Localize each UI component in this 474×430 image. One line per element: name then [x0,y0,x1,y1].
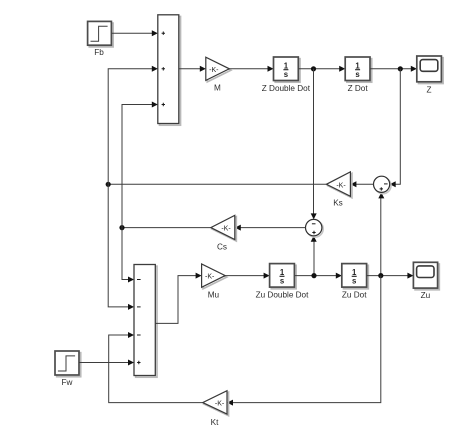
node after Z Double Dot [311,66,316,71]
integrator Z Dot [345,57,371,93]
gain Ks [326,172,352,208]
svg-text:s: s [284,70,289,79]
wire node E to Sum1 input 2 [108,66,158,185]
svg-text:-K-: -K- [209,67,219,74]
wire node E to Sum2 input 2 [108,184,134,310]
svg-text:Ks: Ks [333,199,343,208]
sum block Sum2 [134,265,157,378]
node after Z Dot [398,66,403,71]
svg-text:M: M [214,84,221,93]
wire node F to Sum1 input 3 [122,102,158,228]
wire Fb to Sum1 input 1 [111,30,157,36]
wire gain M to integrator Z Double Dot [229,66,273,72]
svg-text:Zu Double Dot: Zu Double Dot [256,291,310,300]
wire Sum3 to gain Ks [350,181,373,187]
step source Fb [88,21,114,57]
node E Ks feedback tap [106,182,111,187]
svg-text:-K-: -K- [221,226,231,233]
svg-text:Zu: Zu [421,291,431,300]
scope Z [417,56,443,94]
sum junction Sum4 [306,219,324,237]
step source Fw [55,351,81,387]
svg-text:s: s [352,277,357,286]
wire Kt to Sum2 input 3 [109,332,203,403]
node after Zu Dot [378,273,383,278]
wire Zu Dot to scope Zu [367,273,414,279]
sum block Sum1 [158,15,181,125]
svg-text:Zu Dot: Zu Dot [342,291,367,300]
wire Sum4 to gain Cs [235,225,306,231]
wire node after Z Double Dot down to Sum4 top input [311,69,317,220]
svg-text:Fb: Fb [94,48,104,57]
svg-text:s: s [280,277,285,286]
wire node after Zu Double Dot up to Sum4 bottom input [311,236,317,276]
integrator Zu Double Dot [256,264,310,300]
gain M [206,57,231,92]
gain Mu [202,264,227,300]
wire Ks to feedback node E [108,183,326,185]
svg-text:Z Double Dot: Z Double Dot [262,84,311,93]
wire Mu to integrator Zu Double Dot [225,273,269,279]
wire Cs to feedback node F [122,227,211,229]
svg-text:-K-: -K- [336,182,346,189]
svg-text:s: s [355,70,360,79]
svg-text:-K-: -K- [205,274,215,281]
integrator Z Double Dot [262,57,311,93]
svg-text:Z: Z [426,85,431,94]
node after Zu Double Dot [311,273,316,278]
svg-text:Cs: Cs [217,243,227,252]
wire Fw to Sum2 input 4 [79,360,134,366]
svg-text:Fw: Fw [62,378,73,387]
wire Zu Double Dot to Zu Dot [294,273,341,279]
wire node F to Sum2 input 1 [122,228,134,283]
integrator Zu Dot [342,264,369,300]
scope Zu [413,262,439,300]
node F Cs feedback tap [119,225,124,230]
gain Kt [203,391,229,427]
svg-text:Kt: Kt [211,418,219,427]
wire Sum1 to gain M [179,66,206,72]
sum junction Sum3 [374,176,392,194]
gain Cs [211,215,237,251]
wire node after Zu Dot up to Sum3 bottom input [378,192,384,275]
wire node after Z Dot down to Sum3 right input [390,69,401,188]
svg-text:Mu: Mu [208,291,220,300]
wire node after Zu Dot down to gain Kt [227,276,381,406]
wire Sum2 to gain Mu [155,273,201,324]
svg-text:Z Dot: Z Dot [348,84,369,93]
svg-text:-K-: -K- [215,401,225,408]
wire Z Dot to scope Z [370,66,417,72]
wire Z Double Dot to Z Dot [298,66,345,72]
